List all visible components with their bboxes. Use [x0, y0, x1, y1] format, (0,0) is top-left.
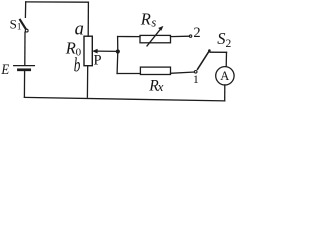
switch S1 bottom contact circle: [25, 29, 28, 32]
wire R0 bottom stub: [86, 66, 88, 97]
svg-text:S2: S2: [217, 29, 231, 50]
resistor Rs body: [140, 35, 171, 42]
wire top branch to Rs: [118, 36, 140, 38]
svg-text:R: R: [140, 9, 151, 28]
wire top border: [26, 1, 89, 3]
wire S2 to right corner: [210, 51, 227, 53]
junction node dot: [116, 49, 120, 53]
resistor Rx body: [140, 67, 170, 74]
ammeter body circle: [216, 67, 234, 85]
wiper arrowhead P: [92, 49, 97, 54]
svg-text:0: 0: [76, 46, 82, 58]
wire left upper (to S1 top contact): [24, 2, 26, 18]
svg-text:P: P: [94, 52, 102, 68]
svg-text:A: A: [220, 69, 229, 83]
Rs arrowhead: [158, 26, 163, 31]
svg-text:s: s: [151, 15, 156, 29]
wire ammeter bottom stub: [224, 85, 226, 101]
wire bottom branch to Rx: [117, 73, 140, 75]
terminal 1 circle: [194, 71, 197, 74]
resistor R0 body: [84, 36, 92, 65]
wire Rx to terminal 1: [171, 72, 195, 73]
svg-text:S1: S1: [10, 17, 22, 32]
svg-text:R: R: [65, 39, 76, 58]
svg-text:E: E: [0, 62, 9, 78]
wire R0 top stub: [87, 2, 89, 36]
wire left middle (S1 to battery): [24, 32, 26, 65]
switch S2 pivot dot: [208, 49, 211, 52]
svg-text:a: a: [75, 20, 84, 40]
wire junction vertical: [116, 37, 119, 74]
switch S2 lever arm: [198, 51, 210, 70]
svg-text:x: x: [157, 79, 164, 94]
wire right column to ammeter: [225, 52, 227, 67]
svg-text:2: 2: [193, 25, 200, 41]
wire Rs to terminal 2: [171, 35, 190, 37]
wiper arrow line of R0: [97, 50, 118, 52]
terminal 2 circle: [189, 35, 191, 37]
switch S1 lever: [20, 20, 26, 30]
wire left lower (battery to bottom): [23, 71, 25, 97]
Rs diagonal arrow: [147, 29, 161, 46]
wire bottom border: [24, 97, 224, 101]
svg-text:1: 1: [193, 72, 199, 86]
battery E short thick plate: [18, 68, 29, 71]
battery E long plate: [14, 65, 35, 67]
